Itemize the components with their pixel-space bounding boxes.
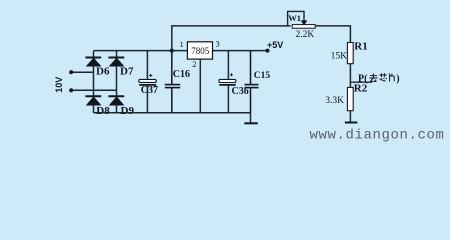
svg-text:3: 3 [216, 39, 220, 49]
wire: ground drop from rail [250, 113, 252, 124]
svg-text:2: 2 [192, 59, 196, 69]
svg-text:D6: D6 [96, 66, 110, 78]
wire: input node up and over to W1 (top loop) [172, 26, 291, 51]
resistor R1 [347, 43, 353, 64]
wire: rail down to D6 cathode [93, 51, 95, 58]
wire: R2 bottom to ground [349, 111, 351, 123]
capacitor C36 (electrolytic) [219, 51, 236, 113]
svg-text:1: 1 [180, 39, 184, 49]
svg-text:C16: C16 [173, 69, 190, 80]
node: AC terminal b [69, 88, 73, 92]
svg-text:R1: R1 [354, 41, 367, 53]
label P(去芯片) [358, 73, 400, 84]
svg-text:D7: D7 [120, 66, 134, 78]
svg-text:C37: C37 [141, 85, 158, 96]
diode D6 [85, 58, 101, 67]
svg-text:10V: 10V [54, 77, 64, 93]
diode D8 [85, 96, 101, 105]
wire: R1 bottom to R2 top [349, 64, 351, 88]
ground: supply common [244, 122, 257, 124]
diode D9 [108, 96, 124, 105]
wire: D6 anode to D8 cathode (left branch) [93, 66, 95, 97]
wire: AC input stub b [71, 89, 116, 91]
svg-text:www.diangon.com: www.diangon.com [310, 128, 445, 144]
diode D7 [108, 58, 124, 67]
potentiometer W1 [288, 11, 316, 28]
node: +5V terminal dot [266, 49, 270, 53]
svg-text:D8: D8 [96, 105, 110, 117]
svg-text:3.3K: 3.3K [325, 96, 344, 106]
node: input junction dot [170, 49, 174, 53]
svg-text:+5V: +5V [267, 40, 283, 50]
wire: bottom ground rail [94, 112, 251, 114]
capacitor C16 [165, 51, 180, 113]
svg-text:2.2K: 2.2K [296, 30, 315, 40]
svg-text:): ) [396, 74, 399, 85]
capacitor C37 (electrolytic) [139, 51, 157, 113]
svg-text:D9: D9 [121, 105, 135, 117]
IC U1 7805 [187, 42, 212, 59]
wire: 7805 pin 2 to ground rail [199, 59, 201, 113]
svg-text:W1: W1 [288, 13, 301, 23]
wire: D8 anode to ground rail [93, 105, 95, 113]
wire: D7 anode to D9 cathode (right branch) [116, 66, 118, 97]
svg-text:15K: 15K [331, 52, 348, 62]
ground: divider return [345, 122, 358, 124]
wire: AC input stub a [71, 71, 93, 73]
wire: W1 right terminal to R1 top [315, 26, 350, 43]
svg-text:C15: C15 [254, 71, 271, 81]
node: AC terminal a [69, 70, 73, 74]
svg-text:R2: R2 [354, 83, 368, 95]
resistor R2 [347, 87, 353, 110]
wire: node P stub [350, 81, 372, 83]
svg-text:7805: 7805 [191, 46, 210, 56]
wire: rail down to D7 cathode [116, 51, 118, 58]
wire: D9 anode to ground rail [116, 105, 118, 113]
wire: main +V rail from bridge to +5V [94, 50, 268, 52]
capacitor C15 [245, 51, 259, 113]
